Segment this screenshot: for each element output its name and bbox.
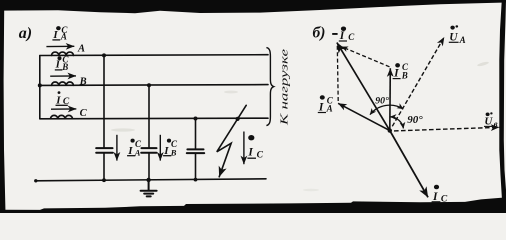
svg-text:а): а): [19, 25, 32, 42]
svg-text:C: C: [80, 108, 88, 119]
svg-text:в: в: [494, 119, 498, 129]
svg-text:К нагрузке: К нагрузке: [280, 48, 291, 126]
svg-text:A: A: [326, 104, 333, 114]
svg-text:I: I: [163, 145, 169, 157]
svg-text:B: B: [61, 62, 68, 72]
svg-text:C: C: [348, 32, 355, 42]
svg-text:I: I: [318, 101, 324, 113]
svg-text:б): б): [313, 25, 326, 42]
svg-text:I: I: [339, 30, 345, 42]
svg-text:B: B: [401, 70, 408, 80]
svg-text:A: A: [77, 44, 85, 55]
svg-text:C: C: [257, 151, 264, 161]
svg-text:C: C: [441, 195, 448, 205]
svg-text:B: B: [79, 76, 87, 87]
svg-text:A: A: [60, 32, 67, 42]
svg-text:U: U: [449, 31, 458, 43]
svg-text:I: I: [55, 59, 61, 71]
svg-text:90°: 90°: [407, 114, 423, 126]
svg-text:C: C: [63, 97, 70, 107]
svg-text:A: A: [459, 35, 466, 45]
svg-text:B: B: [170, 148, 177, 158]
svg-text:I: I: [393, 68, 399, 80]
svg-text:U: U: [484, 116, 493, 128]
svg-text:90°: 90°: [375, 96, 389, 107]
svg-text:I: I: [52, 29, 58, 41]
svg-text:A: A: [134, 148, 141, 158]
svg-text:I: I: [247, 147, 253, 159]
svg-text:I: I: [55, 94, 61, 106]
svg-text:I: I: [127, 145, 133, 157]
